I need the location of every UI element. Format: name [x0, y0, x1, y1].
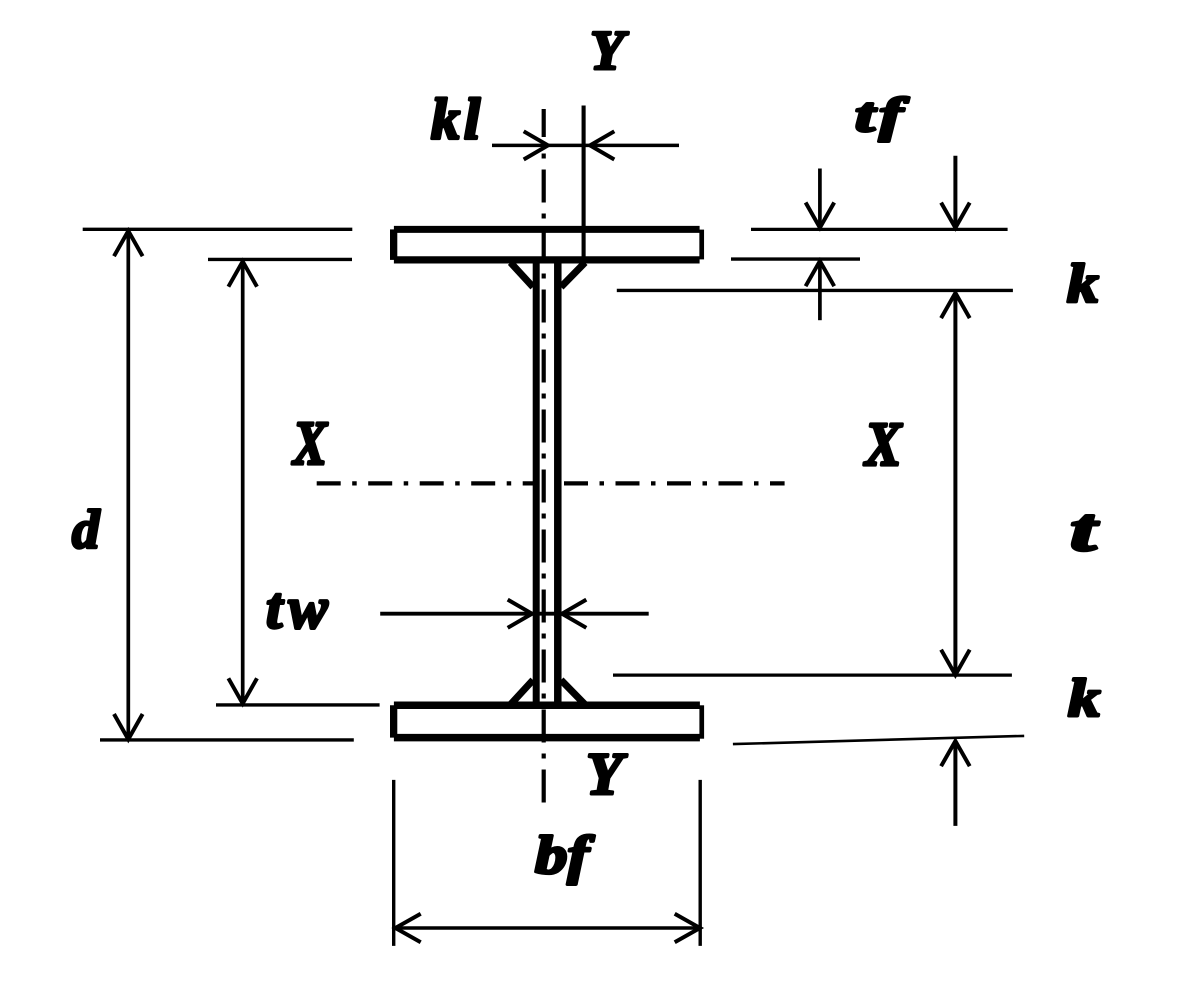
extension line top inner left: [208, 258, 352, 261]
dimension tf line lower: [818, 262, 822, 321]
vertical centerline Y-Y first dash: [542, 109, 546, 137]
dimension kl line: [492, 144, 679, 148]
svg-text:Y: Y: [586, 741, 628, 807]
tw arrow right-pointing: [508, 600, 532, 628]
svg-text:d: d: [72, 499, 101, 560]
svg-text:Y: Y: [590, 20, 629, 82]
extension line k top (fillet line): [617, 289, 1013, 292]
web right line: [554, 261, 562, 704]
t/k arrow down at flange top: [941, 203, 970, 228]
fillet top-right: [561, 263, 585, 288]
svg-text:bf: bf: [535, 825, 595, 885]
bf arrow left-pointing: [395, 914, 420, 943]
svg-text:X: X: [291, 409, 328, 478]
dimension tf arrow down: [806, 203, 835, 228]
dimension bf line: [396, 926, 700, 930]
t arrow down at bottom fillet line: [941, 650, 970, 675]
dimension d arrow up: [114, 231, 143, 256]
svg-text:X: X: [863, 410, 903, 479]
svg-text:tf: tf: [855, 88, 909, 142]
dimension inner arrow up: [228, 261, 257, 286]
web left line: [533, 261, 540, 704]
dimension kl arrow left-pointing: [590, 131, 614, 159]
dimension tw line: [380, 612, 649, 616]
extension line top outer left (d top): [83, 228, 353, 231]
horizontal centerline X-X right part (dash-dot): [564, 481, 785, 485]
svg-text:k: k: [1067, 253, 1099, 314]
fillet top-left: [511, 263, 534, 288]
extension line bottom flange bottom right (slanted): [733, 736, 1024, 744]
dimension tf arrow up: [806, 261, 835, 286]
extension line bottom outer left (d bottom): [100, 738, 354, 741]
horizontal centerline X-X left part (dash-dot): [317, 481, 536, 485]
t arrow up at k line: [941, 293, 970, 318]
svg-text:t: t: [1070, 496, 1100, 563]
k bottom arrow up: [941, 741, 970, 766]
fillet bottom-left: [511, 680, 534, 705]
dimension d arrow down: [114, 714, 143, 739]
dimension inner depth line: [241, 262, 245, 704]
svg-text:kl: kl: [431, 87, 484, 152]
svg-text:k: k: [1068, 668, 1101, 728]
dimension t/k line top segment: [953, 156, 957, 227]
dimension inner arrow down: [228, 678, 257, 703]
bf arrow right-pointing: [675, 914, 700, 943]
Y axis solid reference line (kl right reference): [582, 106, 586, 263]
top flange: [394, 229, 702, 260]
dimension k bottom line segment: [953, 741, 957, 826]
extension line k bottom (fillet line): [613, 673, 1012, 676]
vertical centerline Y-Y (dash-dot): [542, 154, 546, 803]
bottom flange: [394, 705, 702, 739]
dimension kl arrow right-pointing: [524, 131, 548, 159]
dimension d line: [126, 231, 130, 739]
tw arrow left-pointing: [562, 600, 586, 628]
bf extension line right: [699, 780, 702, 946]
fillet bottom-right: [561, 680, 585, 705]
dimension tf line upper: [818, 169, 822, 227]
dimension t line middle segment: [953, 293, 957, 675]
svg-text:tw: tw: [266, 575, 334, 641]
extension line bottom inner left: [216, 703, 380, 706]
bf extension line left: [392, 780, 395, 946]
extension line flange top right: [751, 228, 1008, 231]
extension line flange bottom right: [731, 257, 860, 260]
